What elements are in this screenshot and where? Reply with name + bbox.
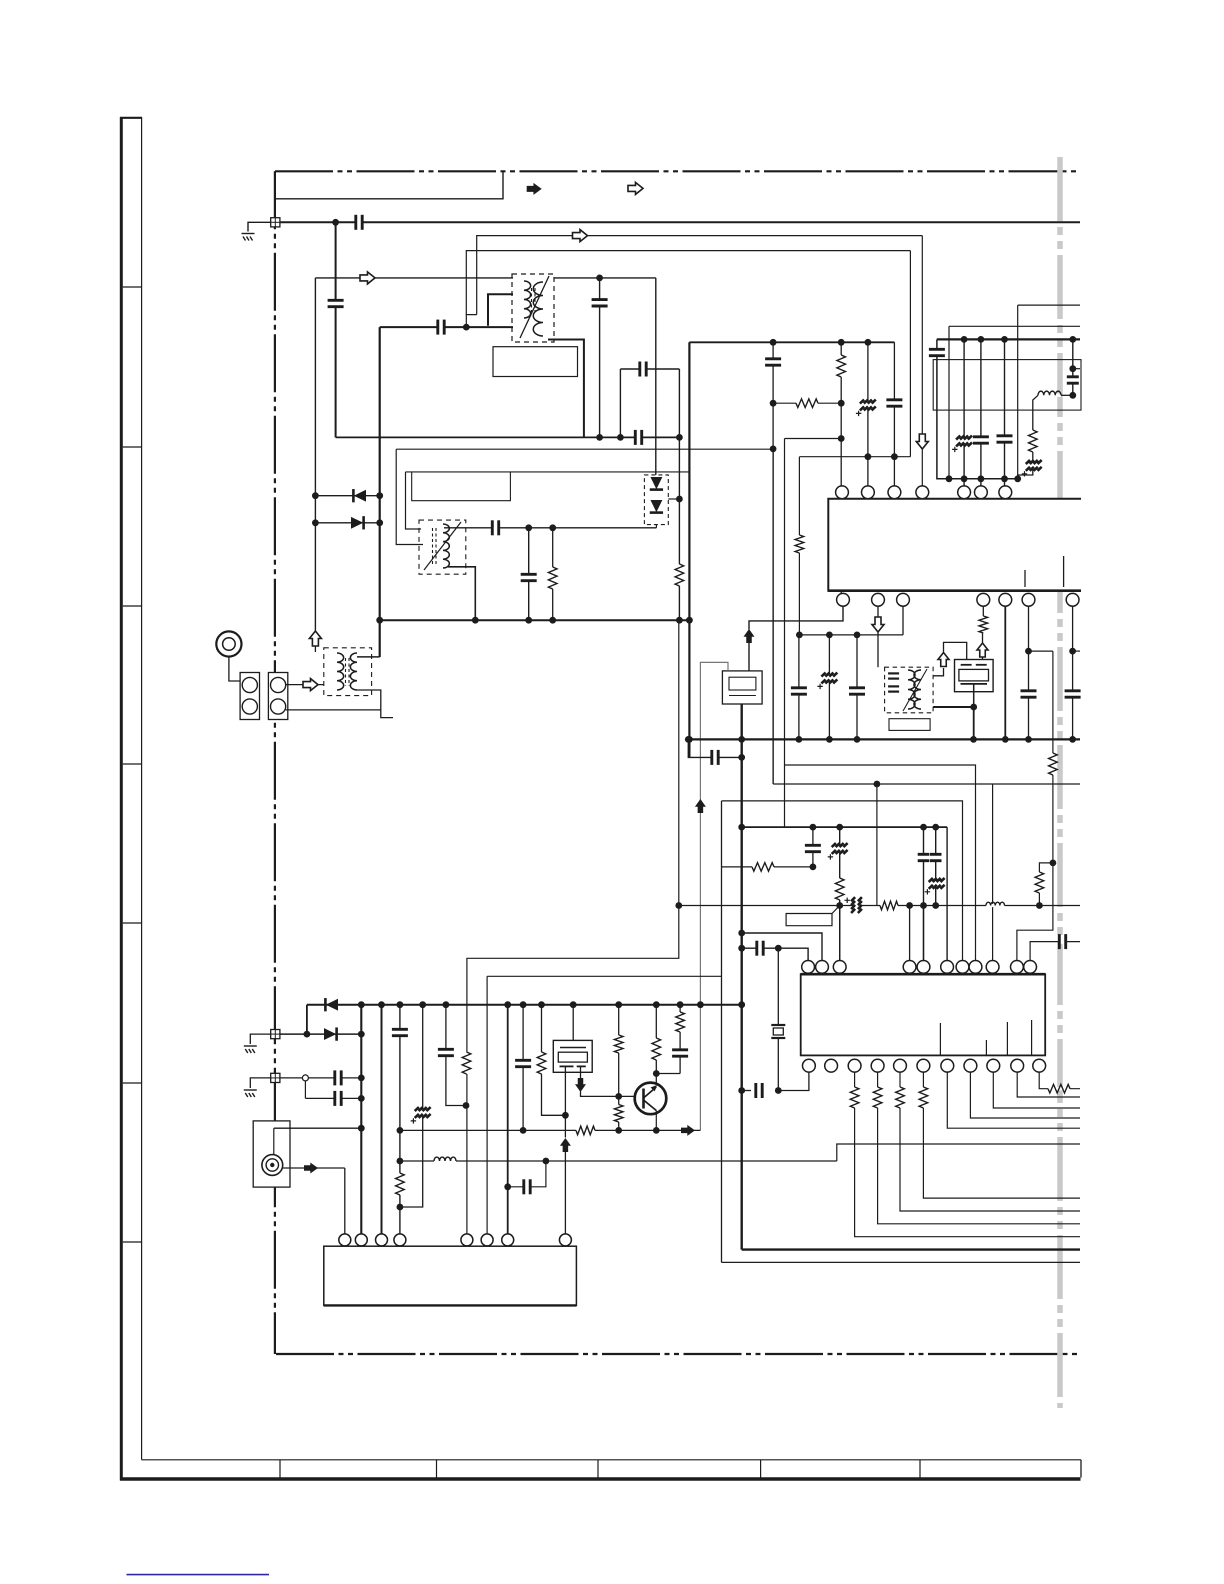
node sup-10	[615, 1001, 622, 1008]
wire F2 left output to pin8	[564, 1066, 566, 1137]
signal arrow (hollow right) into T3	[303, 679, 318, 691]
wire IC2 pin1 link	[778, 1072, 809, 1090]
capacitor C23 (in T2 box)	[891, 686, 895, 691]
transformer T2 windings	[908, 670, 921, 709]
node 827-3	[920, 824, 927, 831]
filter F2 top electrode	[560, 1047, 586, 1049]
capacitor C8 column	[528, 528, 530, 620]
filter F1 inner	[959, 669, 989, 681]
wire fan 947 to edge	[947, 1072, 1080, 1128]
node 478-2	[961, 475, 968, 482]
wire R7 to arrow	[982, 633, 984, 644]
resistor R11	[838, 878, 841, 900]
capacitor C8	[527, 574, 531, 580]
wire F1 left input L	[944, 642, 967, 663]
node 634-1	[796, 632, 803, 639]
wire arrow to T2 box	[877, 632, 879, 668]
capacitor C34 (series)	[335, 1076, 341, 1080]
wire x=445.9 column	[446, 1005, 466, 1106]
wire y=305.1 to edge	[1018, 304, 1080, 306]
node base-618	[615, 1093, 622, 1100]
wire GND bus y=620.2	[380, 619, 690, 621]
label box (empty) below T1	[493, 347, 578, 377]
wire X1 side lead (gray)	[700, 662, 728, 800]
wire y=948.2 caplink	[742, 948, 808, 960]
diode D1	[353, 489, 366, 502]
wire J2 top to tuner	[274, 1127, 362, 1129]
wire x=618.7 column	[618, 1005, 620, 1131]
capacitor C10 (electrolytic)	[866, 402, 870, 409]
node 841-2	[838, 435, 845, 442]
capacitor C31 (series electrolytic)	[853, 903, 860, 907]
wire F2 out to Q1 base	[581, 1092, 644, 1097]
wire T1 secondary bottom lead (thick)	[548, 340, 584, 438]
transformer T2 (dashed box)	[885, 667, 934, 713]
resistor R3	[840, 355, 843, 377]
wire T1 primary top lead	[315, 277, 513, 279]
IC1 bottom pin 7	[1066, 593, 1079, 606]
node 1115-565	[562, 1112, 569, 1119]
wire y=1034.1	[280, 1033, 361, 1035]
IC2 top pin 5	[917, 961, 930, 974]
transformer T3 windings	[337, 653, 357, 690]
wire fan 877 to edge	[878, 1108, 1080, 1224]
node 1130-656	[653, 1127, 660, 1134]
wire x=839.7 pin stub	[839, 906, 841, 961]
wire thick L x=689.4	[688, 342, 690, 757]
signal arrow (filled right) RF in	[304, 1163, 318, 1174]
diode D2	[351, 516, 364, 529]
wire x=1017.7 column	[1017, 305, 1019, 479]
inductor L2	[986, 904, 1005, 907]
capacitor C27 column	[839, 827, 841, 960]
connector jack J1 inner circle	[223, 638, 236, 651]
capacitor C18 wire	[688, 739, 741, 757]
bottom strip divider 5	[919, 1460, 921, 1478]
IC1 top pin 5	[958, 486, 971, 499]
transformer T2 adjuster	[903, 669, 927, 711]
node bus-2	[617, 434, 624, 441]
resistor R7 at IC1 pin	[982, 606, 984, 616]
node T2-out	[970, 704, 977, 711]
wire y=765	[785, 765, 976, 961]
capacitor C1 (series, on top wire)	[356, 220, 362, 224]
wire VCC bus y=342.3	[689, 341, 894, 343]
connector/test point TP2 (box)	[271, 1030, 280, 1039]
node gnd-2	[738, 736, 745, 743]
wire x=784.5 column	[784, 439, 786, 828]
resistor R9	[1038, 872, 1041, 893]
resistor R5	[798, 535, 801, 553]
resistor R17	[617, 1035, 620, 1053]
wire x=773.1 corner	[772, 449, 774, 784]
left strip divider 3	[123, 605, 142, 607]
node 1130-523	[520, 1127, 527, 1134]
node sup-9	[570, 1001, 577, 1008]
resistor R24 (series)	[1048, 1087, 1070, 1090]
resistor R2	[551, 567, 554, 589]
wire x=422.7 column	[400, 1005, 423, 1207]
page frame bottom border (thick)	[120, 1477, 1081, 1480]
node IF-1	[525, 524, 532, 531]
transformer T4 winding	[443, 524, 449, 568]
resistor R13	[398, 1173, 401, 1195]
IC1 top pin 4	[916, 486, 929, 499]
node 905-923	[920, 902, 927, 909]
capacitor C12 column	[937, 339, 1018, 478]
wire fan 900 to edge	[900, 1108, 1080, 1211]
dual diode D3/D4 (dashed box)	[644, 475, 668, 525]
IC2 top pin 10	[1011, 961, 1024, 974]
IC2 bottom pin 3	[848, 1059, 861, 1072]
wire y=976.3	[487, 975, 721, 977]
node on B+ wire	[332, 219, 339, 226]
resistor R12 (series)	[880, 904, 898, 907]
node 1073-656	[653, 1070, 660, 1077]
IC IC2 body	[801, 974, 1045, 1055]
node bus-3	[676, 434, 683, 441]
IC2 bottom pin 6	[917, 1059, 930, 1072]
connector jack J1 outer circle	[216, 631, 241, 656]
connector/test point TP1 (box) on boundary	[271, 218, 280, 227]
resonator X1 lower electrode line	[729, 695, 756, 697]
IC3 top pin 2	[355, 1234, 367, 1246]
wire x=721.5 long column	[721, 801, 723, 1263]
wire fan 1039 to edge	[1039, 1072, 1080, 1089]
capacitor C9	[771, 359, 775, 365]
node 342-3	[865, 339, 872, 346]
node gnd-3	[796, 736, 803, 743]
wire F2 right output	[580, 1066, 582, 1078]
signal arrow (hollow up) above T3	[309, 631, 321, 646]
IC2 bottom pin 10	[1011, 1059, 1024, 1072]
bottom strip divider 3	[597, 1460, 599, 1478]
IC2 top pin 11	[1024, 961, 1037, 974]
wire L1 right lead column x=1072.8	[1072, 339, 1074, 395]
wire thick rail corner to edge	[742, 1248, 1080, 1250]
wire IC1 pin to X1	[749, 606, 843, 629]
node 478-1	[946, 475, 953, 482]
capacitor C24	[1026, 691, 1030, 697]
IC1 internal pin tick 1	[1024, 570, 1026, 587]
resistor R10 wire y=866.9	[722, 866, 813, 868]
transformer T4 adjuster	[424, 522, 461, 570]
filter F2 bottom pads	[560, 1065, 586, 1067]
node D1-l	[312, 492, 319, 499]
wire y=369 branch	[620, 368, 679, 370]
transformer T3 (dashed box)	[324, 648, 372, 696]
IC1 bottom edge emphasis	[828, 589, 1081, 592]
wire audio line y=905.5	[679, 905, 1080, 907]
signal arrow (hollow up) F1 right	[977, 643, 988, 657]
node 478-5	[1014, 475, 1021, 482]
IC2 internal tick 4	[1031, 1020, 1033, 1055]
node 866-1	[810, 864, 817, 871]
node 342-1	[770, 339, 777, 346]
resistor R16	[540, 1052, 543, 1074]
capacitor C36	[398, 1029, 402, 1035]
wire T1 secondary top lead	[554, 277, 656, 279]
capacitor C21 column	[856, 635, 858, 740]
node 905-1039	[1036, 902, 1043, 909]
wire L1 right to edge	[1061, 394, 1073, 396]
node 478-3	[978, 475, 985, 482]
wire y=326.3 to edge	[949, 325, 1080, 327]
node 620-4	[676, 617, 683, 624]
node sup-14	[738, 1001, 745, 1008]
IC2 bottom pin 4	[871, 1059, 884, 1072]
wire IC1 pin6 branch	[1028, 606, 1030, 739]
capacitor C22 (in T2 box)	[891, 673, 895, 678]
wire AGC y=1130.4	[400, 1129, 701, 1131]
wire x=679.4 column	[678, 369, 680, 620]
capacitor C35 (series)	[335, 1096, 341, 1100]
capacitor C2	[333, 300, 337, 306]
wire x=799.4 column	[798, 457, 800, 635]
IC1 top pin 1	[836, 486, 849, 499]
node 905-678	[675, 902, 682, 909]
wire Q1 emitter drop	[655, 1111, 657, 1131]
capacitor C37 (electrolytic)	[421, 1109, 425, 1116]
node 894-1	[891, 453, 898, 460]
capacitor C4	[597, 300, 601, 306]
wire x=487.1 column	[486, 976, 488, 1234]
wire to IC1 area (y=250.6)	[466, 251, 910, 315]
IC2 top edge emphasis	[801, 973, 1045, 976]
IC2 bottom pin 2	[825, 1059, 838, 1072]
wire long thin y=449.2	[396, 448, 773, 450]
capacitor C16 (electrolytic)	[1031, 462, 1035, 469]
wire gray column x=700.4	[699, 812, 701, 1130]
resistor fan R20	[854, 1072, 856, 1087]
IC1 bottom pin 6	[1022, 593, 1035, 606]
wire long thin y=471.9	[406, 471, 690, 473]
node sup-8	[538, 1001, 545, 1008]
IC2 internal tick 1	[939, 1023, 941, 1055]
signal arrow (hollow down) at IC1 pin	[916, 434, 928, 449]
capacitor C7 (series)	[492, 526, 498, 530]
capacitor C25	[1070, 691, 1074, 697]
wire y=1077.9 cap link	[280, 1077, 361, 1079]
node gnd-6	[970, 736, 977, 743]
node 1161-545	[543, 1158, 550, 1165]
resistor R8	[1051, 753, 1054, 775]
wire pin8 drop	[564, 1152, 566, 1235]
node gnd-9	[1069, 736, 1076, 743]
capacitor C14 column	[980, 339, 982, 486]
wire tuner column x=381.5 (thick)	[381, 1005, 383, 1234]
wire x=1052.9 long column	[1017, 651, 1053, 960]
wire J2 shield lead	[273, 1128, 275, 1155]
node x679 mid	[676, 496, 683, 503]
capacitor C38	[444, 1049, 448, 1055]
node 339-4	[1069, 336, 1076, 343]
wire stub 1072 to edge	[1073, 650, 1080, 652]
node IF-2	[549, 524, 556, 531]
capacitor C11 column x=894.4	[893, 342, 895, 486]
resistor R4	[796, 402, 818, 405]
node 1130-618	[615, 1127, 622, 1134]
capacitor C13 (electrolytic)	[962, 438, 966, 445]
wire x=922.8 pin stub	[923, 906, 925, 961]
node 1098-361	[358, 1095, 365, 1102]
wire x=922.3 column to pin	[921, 236, 923, 486]
left strip divider 7	[123, 1241, 142, 1243]
node 784-876	[874, 781, 881, 788]
wire J2 center out	[283, 1167, 345, 1169]
node 827-4	[932, 824, 939, 831]
filter F1 top pads	[961, 664, 987, 666]
node 620-5	[686, 617, 693, 624]
signal arrow (hollow right) into T1	[360, 272, 375, 284]
resistor R1	[678, 564, 681, 586]
IC2 bottom pin 7	[941, 1059, 954, 1072]
diode D5 on bus	[325, 998, 338, 1011]
IC2 top pin 1	[802, 961, 815, 974]
wire VDD bus y=339.4 (thick)	[937, 338, 1080, 340]
IC1 bottom pin 4	[977, 593, 990, 606]
capacitor C5 (series on bus)	[635, 435, 641, 439]
resistor R10	[752, 865, 774, 868]
page fold gray dash-dot line	[1057, 157, 1063, 1408]
node sup-4	[419, 1001, 426, 1008]
wire x=620.4 drop	[619, 369, 621, 437]
wire left branch vertical x=315.4	[314, 278, 316, 632]
wire main left vertical x=379.7 (thick)	[379, 327, 381, 657]
crystal X2	[777, 1025, 780, 1038]
signal arrow (filled right) top	[527, 183, 542, 195]
inductor L3	[434, 1159, 456, 1162]
IC3 top pin 7	[502, 1234, 514, 1246]
node gnd-8	[1025, 736, 1032, 743]
wire x=910.4 column	[909, 251, 911, 457]
wire T1 primary lower lead (thick L)	[488, 294, 513, 326]
node sup-12	[677, 1001, 684, 1008]
capacitor C21	[855, 688, 859, 694]
wire arrow to X1 box	[748, 642, 750, 671]
left strip divider 5	[123, 922, 142, 924]
wire T4 out (IF) y=527.8	[444, 527, 656, 529]
title box (empty) top-left	[275, 171, 503, 199]
node 948-778	[775, 945, 782, 952]
resistor R25	[617, 1105, 620, 1123]
transformer T1 windings	[524, 281, 543, 336]
wire fan 923 to edge	[923, 1108, 1080, 1198]
node sup-5	[443, 1001, 450, 1008]
signal arrow (filled down) F2 out	[575, 1078, 586, 1092]
wire T3 secondary top to x=379.7	[357, 656, 380, 658]
ground G2 stub	[250, 1034, 270, 1044]
node sup-3	[397, 1001, 404, 1008]
node gnd-7	[1002, 736, 1009, 743]
filter F2 outer box	[553, 1040, 592, 1072]
capacitor C40	[521, 1060, 525, 1066]
IC1 top pin 2	[862, 486, 875, 499]
page frame bottom strip inner line	[142, 1459, 1081, 1461]
node 905-839	[836, 902, 843, 909]
wire x=405.5 to T4 top	[406, 472, 422, 529]
capacitor C11	[892, 400, 896, 406]
page frame left strip top cap	[120, 117, 142, 119]
page frame left strip inner line	[141, 117, 143, 1460]
bottom strip divider 4	[760, 1460, 762, 1478]
node corner-1034	[304, 1031, 311, 1038]
IC3 top pin 3	[376, 1234, 388, 1246]
node D2-l	[312, 519, 319, 526]
wire fan 970 to edge	[970, 1072, 1080, 1118]
transformer T4 (dashed box)	[419, 520, 466, 574]
wire x=523.1 column	[522, 1005, 524, 1131]
IC3 top pin 5	[461, 1234, 473, 1246]
node T1 sec top	[596, 275, 603, 282]
IC2 top pin 4	[903, 961, 916, 974]
wire pin3 drop	[902, 606, 904, 635]
capacitor C19	[797, 688, 801, 694]
signal arrow (hollow down) pin2	[872, 617, 884, 632]
label callout box (empty) with leader	[786, 906, 840, 926]
node 905-935	[932, 902, 939, 909]
wire IC1 pin7 branch	[1072, 606, 1074, 739]
IC1 bottom pin 3	[897, 593, 910, 606]
transformer T3 core	[346, 658, 350, 686]
IC2 top pin 9	[986, 961, 999, 974]
capacitor C33 (series)	[1059, 939, 1065, 943]
wire T3 secondary bottom return	[357, 690, 393, 718]
wire into T3 top	[314, 646, 316, 653]
IC3 top pin 8	[559, 1234, 571, 1246]
IC2 top pin 8	[969, 961, 982, 974]
wire x=949 column	[948, 326, 950, 479]
wire to IC1 pin (y=235.6)	[477, 236, 923, 315]
boundary dash-dot bottom	[276, 1353, 1080, 1355]
capacitor C15 column	[1004, 339, 1006, 486]
IC2 top pin 7	[956, 961, 969, 974]
wire supply bus y=1004.7 (thick)	[307, 1004, 742, 1006]
capacitor C30 (electrolytic)	[934, 880, 938, 887]
capacitor C39 (series)	[524, 1185, 530, 1189]
wire y=800.9	[722, 801, 963, 961]
connector CN1 (2p)	[240, 673, 259, 720]
wire crystal column	[777, 948, 779, 1090]
node 339-2	[978, 336, 985, 343]
left strip divider 4	[123, 763, 142, 765]
connector/test point TP3 (box)	[271, 1073, 280, 1082]
transformer T4 core	[433, 528, 437, 566]
signal arrow (filled up) on gray wire	[695, 799, 706, 813]
IC2 top pin 2	[816, 961, 829, 974]
node 339-3	[1001, 336, 1008, 343]
capacitor C13 column	[963, 339, 965, 486]
node sup-7	[520, 1001, 527, 1008]
node 399-3	[397, 1204, 404, 1211]
capacitor C14	[979, 437, 983, 443]
resistor R14 on x=466 column	[465, 1052, 468, 1074]
capacitor C42 (series)	[756, 1088, 762, 1092]
wire T2 to F1 input	[933, 668, 943, 676]
wire x=396.2 to T4 bottom	[396, 449, 423, 544]
node sup-2	[378, 1001, 385, 1008]
diode D3	[650, 477, 663, 490]
wire x=541.5 column	[542, 1005, 566, 1116]
node 773-1	[770, 400, 777, 407]
wire x=992.6 drop	[992, 784, 994, 961]
wire T2-out to gnd	[973, 707, 975, 739]
capacitor C26	[811, 845, 815, 851]
transformer T1 (dashed box)	[512, 274, 554, 342]
wire cap C33 link	[1030, 942, 1080, 961]
node 741-757	[738, 754, 745, 761]
diode D1 wire	[315, 495, 379, 497]
